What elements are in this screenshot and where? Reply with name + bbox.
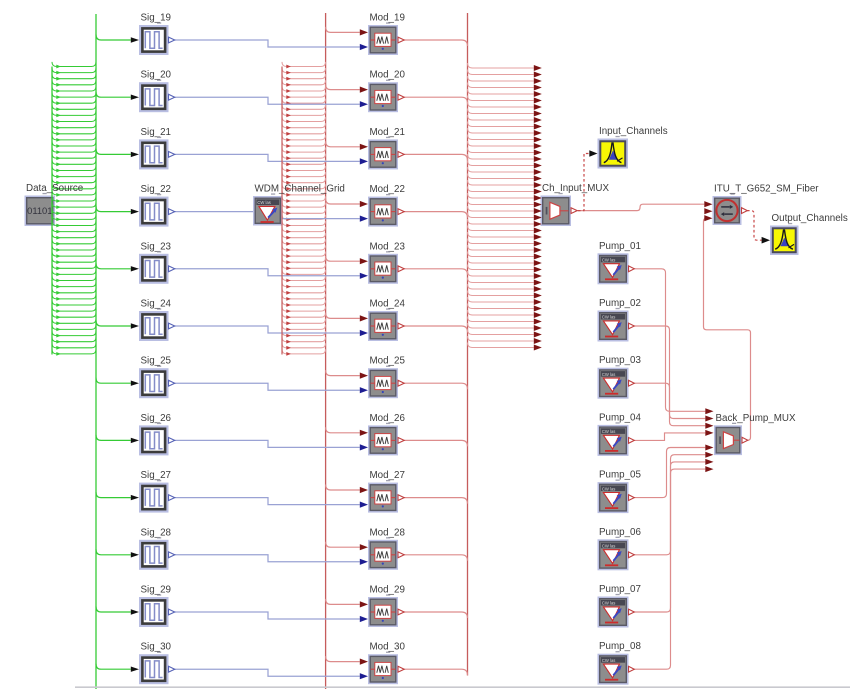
svg-text:Pump_02: Pump_02: [599, 298, 641, 309]
wire red fan rung 28: [282, 227, 326, 232]
wire red MUX fan rung 36: [468, 291, 534, 296]
wire green fan rung 10: [52, 117, 96, 122]
wire red Mod_23 output to trunk: [404, 269, 468, 275]
Pump_08 output port: [629, 666, 635, 672]
wire red fan rung 36: [282, 276, 326, 281]
signal generator Sig_21: [139, 139, 169, 169]
wire red MUX fan rung 37: [468, 297, 534, 302]
wire blue Sig_22 to Mod_22: [175, 212, 360, 219]
wire red MUX fan rung 25: [468, 219, 534, 224]
modulator Mod_23: [368, 254, 398, 284]
wire red fan rung 17: [282, 160, 326, 165]
wire red branch to Mod_28: [326, 542, 360, 548]
wire red Mod_19 output to trunk: [404, 40, 468, 46]
wire Pump_02 to Back_Pump_MUX: [634, 326, 706, 419]
wire red fan rung 46: [282, 337, 326, 342]
modulator Mod_22: [368, 197, 398, 227]
wire red MUX fan rung 30: [468, 252, 534, 257]
svg-text:Sig_26: Sig_26: [141, 413, 172, 424]
wire red branch to Mod_25: [326, 370, 360, 376]
wire red MUX fan rung 44: [468, 343, 534, 348]
svg-text:Ch_Input_MUX: Ch_Input_MUX: [542, 183, 609, 194]
wire green fan rung 7: [52, 99, 96, 104]
wire green branch to Sig_28: [96, 549, 131, 555]
pump laser Pump_04: [598, 425, 629, 456]
svg-text:Sig_29: Sig_29: [141, 585, 172, 596]
wire red fan rung 27: [282, 221, 326, 226]
wire green fan rung 3: [52, 74, 96, 79]
wire red MUX fan rung 4: [468, 83, 534, 88]
Sig_29 output port: [169, 609, 175, 615]
wire green fan rung 8: [52, 105, 96, 110]
Sig_27 output port: [169, 495, 175, 501]
wire red fan rung 45: [282, 331, 326, 336]
wire green fan rung 14: [52, 141, 96, 146]
svg-text:Mod_24: Mod_24: [370, 299, 406, 310]
wire green fan-out bus from Data_Source: [51, 67, 53, 355]
Mod_22 output port: [398, 209, 404, 215]
wire red MUX fan rung 19: [468, 180, 534, 185]
modulator Mod_26: [368, 425, 398, 455]
svg-text:Mod_23: Mod_23: [370, 241, 406, 252]
svg-text:CW las: CW las: [602, 315, 616, 320]
wire red MUX fan rung 42: [468, 330, 534, 335]
Ch_Input_MUX output port: [571, 208, 577, 214]
pump laser Pump_06: [598, 539, 629, 570]
wire red MUX fan rung 16: [468, 161, 534, 166]
wire red MUX fan rung 14: [468, 148, 534, 153]
wire red MUX fan rung 8: [468, 109, 534, 114]
svg-text:CW las: CW las: [602, 429, 616, 434]
svg-text:Data_Source: Data_Source: [26, 183, 84, 194]
wire green fan rung 46: [52, 337, 96, 342]
source Data_Source: [25, 196, 56, 227]
wire blue Sig_21 to Mod_21: [175, 154, 360, 161]
wire red branch to Mod_23: [326, 256, 360, 262]
wire green fan rung 9: [52, 111, 96, 116]
wire green fan rung 30: [52, 239, 96, 244]
wire red fan rung 19: [282, 172, 326, 177]
wire red fan rung 14: [282, 141, 326, 146]
wire green fan rung 40: [52, 300, 96, 305]
wire green fan rung 20: [52, 178, 96, 183]
wire red MUX fan rung 31: [468, 258, 534, 263]
svg-text:Pump_08: Pump_08: [599, 641, 641, 652]
wire red Mod_30 output to trunk: [404, 669, 468, 675]
Sig_28 output port: [169, 552, 175, 558]
wire blue Sig_30 to Mod_30: [175, 669, 360, 676]
Pump_04 output port: [629, 438, 635, 444]
wire green fan rung 26: [52, 215, 96, 220]
wire blue Sig_20 to Mod_20: [175, 97, 360, 104]
Mod_23 output port: [398, 266, 404, 272]
wire green fan rung 5: [52, 86, 96, 91]
wire red Mod_25 output to trunk: [404, 383, 468, 389]
Pump_03 output port: [629, 380, 635, 386]
svg-text:Pump_07: Pump_07: [599, 584, 641, 595]
wire red MUX fan rung 27: [468, 232, 534, 237]
modulator Mod_29: [368, 597, 398, 627]
wire red Mod_27 output to trunk: [404, 498, 468, 504]
wire green fan rung 45: [52, 331, 96, 336]
wire red MUX fan rung 23: [468, 206, 534, 211]
wire red Mod_21 output to trunk: [404, 154, 468, 160]
svg-text:Mod_20: Mod_20: [370, 70, 406, 81]
svg-text:Pump_06: Pump_06: [599, 527, 641, 538]
wire red branch to Mod_30: [326, 656, 360, 662]
wire red MUX fan rung 39: [468, 310, 534, 315]
svg-text:CW las: CW las: [602, 601, 616, 606]
wire red Mod_24 output to trunk: [404, 326, 468, 332]
fiber ITU_T_G652_SM_Fiber: [713, 196, 742, 225]
svg-text:Output_Channels: Output_Channels: [772, 213, 848, 224]
wire green fan rung 4: [52, 80, 96, 85]
svg-text:Sig_23: Sig_23: [141, 241, 172, 252]
wire red MUX fan rung 29: [468, 245, 534, 250]
Sig_24 output port: [169, 323, 175, 329]
wire green fan rung 21: [52, 184, 96, 189]
svg-text:Pump_01: Pump_01: [599, 241, 641, 252]
wire green fan rung 38: [52, 288, 96, 293]
Mod_19 output port: [398, 37, 404, 43]
wire green fan rung 44: [52, 325, 96, 330]
Mod_24 output port: [398, 323, 404, 329]
modulator Mod_20: [368, 82, 398, 112]
Pump_02 output port: [629, 323, 635, 329]
wire red MUX fan rung 17: [468, 167, 534, 172]
svg-text:CW las: CW las: [257, 200, 271, 205]
modulator Mod_19: [368, 25, 398, 55]
wire green fan rung 15: [52, 148, 96, 153]
wire red fan rung 35: [282, 270, 326, 275]
Mod_20 output port: [398, 94, 404, 100]
wire red branch to Mod_21: [326, 141, 360, 147]
wire red fan rung 4: [282, 80, 326, 85]
wire green fan rung 25: [52, 209, 96, 214]
signal generator Sig_28: [139, 540, 169, 570]
svg-text:CW las: CW las: [602, 372, 616, 377]
wire Pump_04 to Back_Pump_MUX: [634, 433, 706, 441]
wire red branch to Mod_22: [326, 199, 360, 205]
wire red branch to Mod_29: [326, 599, 360, 605]
wire red fan rung 13: [282, 135, 326, 140]
wire green branch to Sig_19: [96, 35, 131, 41]
wire red branch to Mod_19: [326, 27, 360, 33]
svg-text:Sig_24: Sig_24: [141, 299, 172, 310]
signal generator Sig_29: [139, 597, 169, 627]
svg-text:CW las: CW las: [602, 486, 616, 491]
wire green fan rung 17: [52, 160, 96, 165]
wire blue Sig_25 to Mod_25: [175, 383, 360, 390]
modulator Mod_25: [368, 368, 398, 398]
modulator Mod_21: [368, 139, 398, 169]
wire red MUX fan rung 9: [468, 115, 534, 120]
wire red fan rung 1: [282, 62, 326, 67]
svg-text:Mod_29: Mod_29: [370, 585, 405, 596]
signal generator Sig_26: [139, 425, 169, 455]
wire blue Sig_26 to Mod_26: [175, 440, 360, 447]
wire green fan rung 24: [52, 203, 96, 208]
wire red fan rung 37: [282, 282, 326, 287]
wire red fan rung 5: [282, 86, 326, 91]
wire green fan rung 22: [52, 190, 96, 195]
wire red MUX fan rung 15: [468, 154, 534, 159]
wire red MUX fan rung 10: [468, 122, 534, 127]
wire red MUX fan rung 26: [468, 226, 534, 231]
svg-text:Sig_28: Sig_28: [141, 527, 172, 538]
svg-text:Mod_28: Mod_28: [370, 527, 406, 538]
Mod_21 output port: [398, 152, 404, 158]
wire red MUX fan rung 24: [468, 213, 534, 218]
wire green fan rung 41: [52, 307, 96, 312]
wire red MUX fan rung 1: [468, 63, 534, 68]
signal generator Sig_25: [139, 368, 169, 398]
wire red MUX fan rung 43: [468, 336, 534, 341]
wire blue Sig_19 to Mod_19: [175, 40, 360, 47]
wire red fan rung 34: [282, 264, 326, 269]
wire green fan rung 1: [52, 62, 96, 67]
multiplexer Back_Pump_MUX: [714, 425, 742, 455]
wire red Mod_22 output to trunk: [404, 212, 468, 218]
svg-text:Back_Pump_MUX: Back_Pump_MUX: [716, 413, 797, 424]
pump laser Pump_03: [598, 368, 629, 399]
signal generator Sig_24: [139, 311, 169, 341]
wire red fan rung 39: [282, 294, 326, 299]
wire red fan rung 18: [282, 166, 326, 171]
wire red fan rung 26: [282, 215, 326, 220]
wire Pump_07 to Back_Pump_MUX: [634, 462, 706, 612]
wire red fan rung 44: [282, 325, 326, 330]
wire red fan rung 33: [282, 258, 326, 263]
wire green branch to Sig_26: [96, 435, 131, 441]
wire red fan rung 3: [282, 74, 326, 79]
wire red fan rung 16: [282, 154, 326, 159]
wire red fan rung 38: [282, 288, 326, 293]
wire red fan rung 40: [282, 300, 326, 305]
analyzer Output_Channels: [770, 226, 799, 256]
wire red MUX fan rung 41: [468, 323, 534, 328]
wire red fan rung 22: [282, 190, 326, 195]
wire green fan rung 2: [52, 68, 96, 73]
wire red fan rung 41: [282, 307, 326, 312]
wire red fan rung 43: [282, 319, 326, 324]
wire red fan-out bus from WDM_Channel_Grid: [281, 67, 283, 355]
wire green branch to Sig_29: [96, 607, 131, 613]
wire red channel trunk 1: [325, 13, 327, 689]
svg-text:Mod_25: Mod_25: [370, 356, 406, 367]
wire Back_Pump_MUX output to fiber backward input: [704, 218, 751, 440]
wire red MUX fan rung 13: [468, 141, 534, 146]
wire red fan rung 10: [282, 117, 326, 122]
wire red MUX fan rung 34: [468, 278, 534, 283]
wire red branch to Mod_20: [326, 84, 360, 90]
wire green fan rung 33: [52, 258, 96, 263]
wire red fan rung 11: [282, 123, 326, 128]
wire red fan rung 30: [282, 239, 326, 244]
wire green fan rung 36: [52, 276, 96, 281]
svg-text:Pump_05: Pump_05: [599, 470, 641, 481]
wire red MUX fan rung 28: [468, 239, 534, 244]
wire dashed fiber output to Output_Channels: [747, 211, 762, 241]
wire red fan rung 8: [282, 105, 326, 110]
wire red MUX fan rung 12: [468, 135, 534, 140]
Sig_22 output port: [169, 209, 175, 215]
wire red Mod_20 output to trunk: [404, 97, 468, 103]
signal generator Sig_23: [139, 254, 169, 284]
wire red branch to Mod_24: [326, 313, 360, 319]
wire red MUX fan rung 21: [468, 193, 534, 198]
svg-text:Sig_19: Sig_19: [141, 13, 172, 24]
svg-text:Pump_04: Pump_04: [599, 412, 641, 423]
wire red branch to Mod_27: [326, 485, 360, 491]
Mod_28 output port: [398, 552, 404, 558]
svg-text:Sig_20: Sig_20: [141, 70, 172, 81]
pump laser Pump_01: [598, 253, 629, 284]
wire red fan rung 48: [282, 349, 326, 354]
wire green fan rung 28: [52, 227, 96, 232]
Mod_25 output port: [398, 380, 404, 386]
Mod_26 output port: [398, 438, 404, 444]
MUX input fan arrowheads: [534, 65, 542, 71]
wire green fan rung 47: [52, 343, 96, 348]
svg-text:ITU_T_G652_SM_Fiber: ITU_T_G652_SM_Fiber: [714, 184, 819, 195]
wire green fan rung 37: [52, 282, 96, 287]
wire red MUX fan rung 35: [468, 284, 534, 289]
wire blue Sig_29 to Mod_29: [175, 612, 360, 619]
wire green branch to Sig_25: [96, 378, 131, 384]
wire red channel trunk 2: [467, 13, 469, 676]
wire red branch to Mod_26: [326, 427, 360, 433]
modulator Mod_24: [368, 311, 398, 341]
wire green branch to Sig_23: [96, 263, 131, 269]
wire red fan rung 25: [282, 209, 326, 214]
svg-text:Sig_21: Sig_21: [141, 127, 172, 138]
svg-text:Sig_22: Sig_22: [141, 184, 172, 195]
Pump_05 output port: [629, 495, 635, 501]
svg-text:WDM_Channel_Grid: WDM_Channel_Grid: [255, 184, 345, 195]
modulator Mod_28: [368, 540, 398, 570]
Sig_25 output port: [169, 380, 175, 386]
wire green branch to Sig_27: [96, 492, 131, 498]
wire red MUX fan rung 6: [468, 96, 534, 101]
wire blue Sig_27 to Mod_27: [175, 498, 360, 505]
wire green fan rung 35: [52, 270, 96, 275]
wire green fan rung 11: [52, 123, 96, 128]
wire red MUX fan rung 40: [468, 317, 534, 322]
wire red fan rung 9: [282, 111, 326, 116]
signal generator Sig_22: [139, 197, 169, 227]
wire red fan rung 12: [282, 129, 326, 134]
wire green fan rung 27: [52, 221, 96, 226]
wire red Mod_29 output to trunk: [404, 612, 468, 618]
wire green branch to Sig_30: [96, 664, 131, 670]
wire Pump_03 to Back_Pump_MUX: [634, 383, 706, 426]
Pump_07 output port: [629, 609, 635, 615]
wire red fan rung 24: [282, 203, 326, 208]
svg-text:01101: 01101: [27, 205, 52, 216]
Mod_29 output port: [398, 609, 404, 615]
svg-text:Mod_21: Mod_21: [370, 127, 405, 138]
svg-text:Mod_26: Mod_26: [370, 413, 406, 424]
pump laser Pump_05: [598, 482, 629, 513]
Sig_30 output port: [169, 666, 175, 672]
Sig_21 output port: [169, 152, 175, 158]
canvas bottom edge line: [75, 686, 850, 688]
pump laser Pump_02: [598, 311, 629, 342]
multiplexer Ch_Input_MUX: [541, 196, 572, 227]
wire red Mod_26 output to trunk: [404, 440, 468, 446]
wire red Mod_28 output to trunk: [404, 555, 468, 561]
svg-text:Mod_27: Mod_27: [370, 470, 405, 481]
wire red fan rung 23: [282, 196, 326, 201]
wire green fan rung 34: [52, 264, 96, 269]
wire green fan rung 31: [52, 245, 96, 250]
svg-text:Mod_22: Mod_22: [370, 184, 405, 195]
wire red MUX fan rung 5: [468, 89, 534, 94]
Mod_27 output port: [398, 495, 404, 501]
wire red fan rung 21: [282, 184, 326, 189]
Pump_01 output port: [629, 266, 635, 272]
wire green branch to Sig_24: [96, 321, 131, 327]
wire red MUX fan rung 3: [468, 76, 534, 81]
analyzer Input_Channels: [598, 139, 629, 169]
wire red fan rung 47: [282, 343, 326, 348]
svg-text:Sig_25: Sig_25: [141, 356, 172, 367]
fiber output port: [742, 208, 748, 214]
svg-text:CW las: CW las: [602, 544, 616, 549]
wire red MUX fan rung 20: [468, 187, 534, 192]
laser array WDM_Channel_Grid: [253, 196, 283, 226]
wire green fan rung 13: [52, 135, 96, 140]
wire red fan rung 20: [282, 178, 326, 183]
wire Pump_08 to Back_Pump_MUX: [634, 469, 706, 669]
wire green fan rung 6: [52, 93, 96, 98]
wire red MUX fan rung 22: [468, 200, 534, 205]
wire green branch to Sig_22: [96, 206, 131, 212]
Pump_06 output port: [629, 552, 635, 558]
wire red fan rung 2: [282, 68, 326, 73]
wire green fan rung 32: [52, 252, 96, 257]
wire green branch to Sig_20: [96, 92, 131, 98]
wire red MUX fan rung 33: [468, 271, 534, 276]
Sig_20 output port: [169, 94, 175, 100]
wire red fan rung 7: [282, 99, 326, 104]
wire green fan rung 19: [52, 172, 96, 177]
wire Pump_05 to Back_Pump_MUX: [634, 448, 706, 498]
wire red MUX fan rung 38: [468, 304, 534, 309]
modulator Mod_27: [368, 483, 398, 513]
wire green branch to Sig_21: [96, 149, 131, 155]
wire red MUX fan rung 18: [468, 174, 534, 179]
wire red fan rung 42: [282, 313, 326, 318]
fiber forward-pump input port arrow: [704, 208, 712, 214]
Sig_23 output port: [169, 266, 175, 272]
wire green fan rung 23: [52, 196, 96, 201]
svg-text:Pump_03: Pump_03: [599, 355, 641, 366]
svg-text:CW las: CW las: [602, 258, 616, 263]
signal generator Sig_27: [139, 483, 169, 513]
wire red fan rung 15: [282, 148, 326, 153]
wire dashed monitor tap to Input_Channels: [578, 154, 589, 211]
wire green fan rung 29: [52, 233, 96, 238]
Mod_30 output port: [398, 666, 404, 672]
wire green distribution trunk: [95, 14, 97, 689]
wire red MUX fan rung 32: [468, 265, 534, 270]
svg-text:Mod_19: Mod_19: [370, 13, 405, 24]
wire green fan rung 42: [52, 313, 96, 318]
wire green fan rung 18: [52, 166, 96, 171]
pump laser Pump_08: [598, 654, 629, 685]
